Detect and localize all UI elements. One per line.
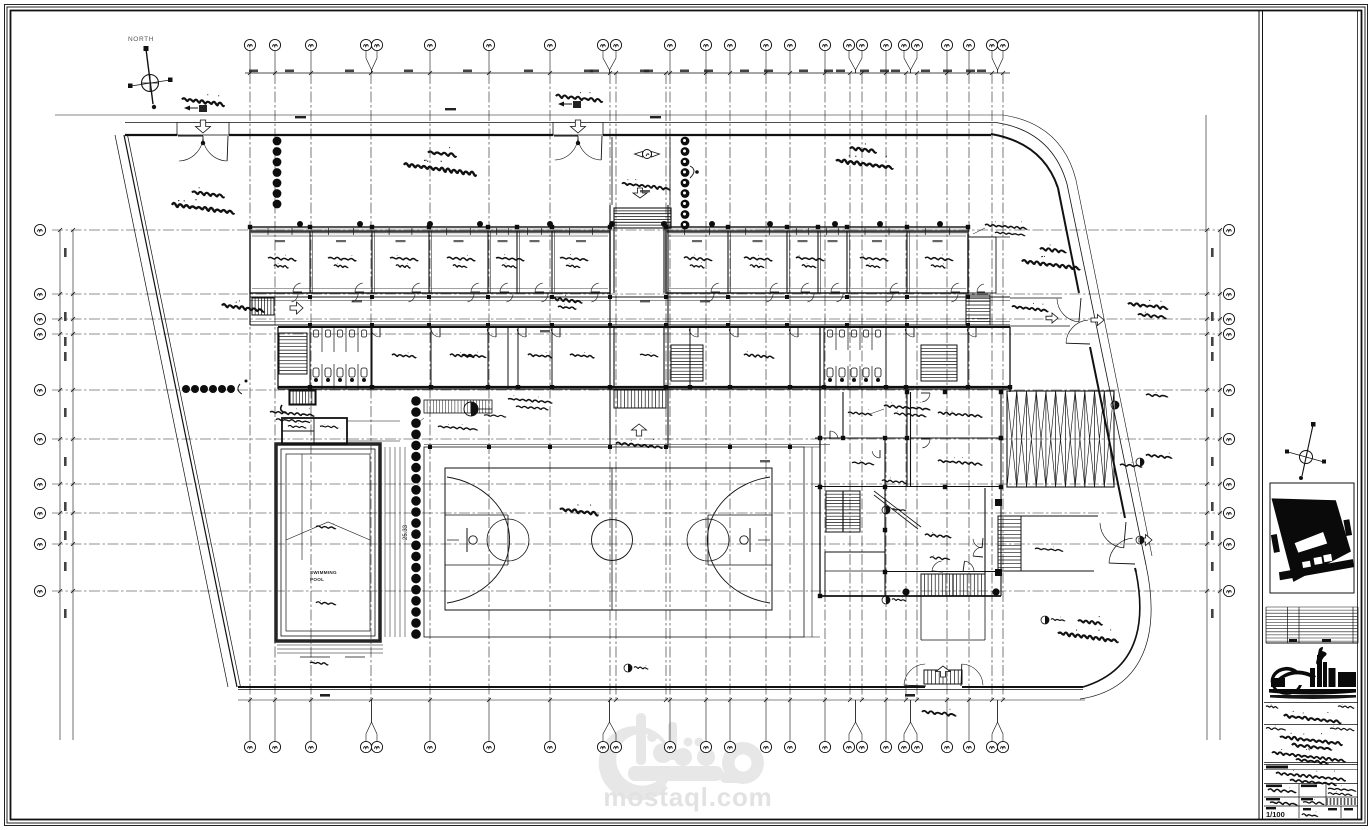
site boundary bottom fence bbox=[238, 686, 1083, 688]
row B outline bbox=[278, 327, 1010, 389]
court right key bbox=[708, 515, 772, 565]
kindergarten room labels bbox=[938, 412, 982, 417]
title block project rows bbox=[1266, 728, 1286, 730]
svg-text:NORTH: NORTH bbox=[128, 36, 154, 43]
row A left wing room partitions bbox=[310, 231, 552, 293]
courtyard level markers bbox=[882, 506, 890, 514]
row B columns bbox=[308, 385, 312, 389]
horizontal grid lines bbox=[52, 230, 1222, 591]
circled marker above entrance bbox=[643, 150, 652, 159]
dimension chain top bbox=[55, 114, 1003, 116]
right fence gate kindergarten doors bbox=[1057, 299, 1079, 322]
canopy hatched roof bbox=[1007, 391, 1114, 487]
tree column near gate2 bbox=[681, 137, 690, 146]
corridor door arcs from row A bbox=[291, 294, 298, 302]
kindergarten block columns bbox=[818, 436, 822, 440]
misc right side labels bbox=[1146, 394, 1168, 397]
dimension chain left bbox=[59, 230, 61, 740]
building row A outline right wing bbox=[666, 227, 968, 293]
NE stair outside building bbox=[966, 295, 990, 325]
kindergarten block outline bbox=[820, 327, 1010, 596]
tree row horizontal west bbox=[182, 385, 190, 393]
row B doors bbox=[371, 329, 380, 337]
kindergarten interior walls bbox=[815, 438, 1001, 596]
right hoop bbox=[749, 528, 751, 552]
title block left border bbox=[1258, 11, 1260, 820]
misc note top right of row A bbox=[985, 224, 1027, 229]
central spine walls bbox=[610, 205, 668, 447]
tree row west courtyard bbox=[411, 396, 421, 406]
dimension chain right bbox=[1206, 230, 1208, 740]
big corner columns bbox=[995, 499, 1002, 506]
row A left wing doors bbox=[293, 283, 301, 292]
pool basin bbox=[286, 454, 370, 631]
walkway to south gate bbox=[921, 596, 985, 640]
title block revision table bbox=[1266, 607, 1358, 641]
kindergarten east stair (corridor level) bbox=[921, 345, 957, 381]
misc note below row B right bbox=[884, 405, 930, 410]
court enclosure columns bbox=[428, 445, 432, 449]
building row A outline left wing bbox=[250, 227, 610, 293]
court label bbox=[560, 508, 598, 515]
pool lane + slope lines bbox=[286, 454, 370, 560]
watermark mostaql arabic logo bbox=[599, 713, 764, 800]
tree column near gate1 bbox=[273, 137, 282, 146]
central spine top entrance stair bbox=[614, 208, 671, 228]
title block signature table bbox=[1264, 784, 1358, 819]
site boundary top fence bbox=[125, 134, 991, 136]
row B room labels bbox=[392, 354, 416, 358]
svg-text:POOL: POOL bbox=[310, 577, 324, 582]
vertical grid lines bbox=[250, 73, 1003, 700]
basketball court outline bbox=[445, 468, 772, 610]
corridor walls bbox=[250, 297, 1010, 325]
pool south steps bbox=[277, 645, 383, 653]
label: madkhal thanawi west side + arrow bbox=[222, 304, 264, 312]
gate 1 label madkhal thanawi bbox=[182, 98, 224, 106]
site boundary bottom-right corner curve bbox=[1083, 572, 1140, 687]
label: kindergarten courtyard top right bbox=[850, 147, 876, 152]
corridor west stair bbox=[252, 298, 274, 315]
row B west stair bbox=[279, 333, 307, 374]
NE corner room extension bbox=[968, 237, 996, 293]
svg-text:mostaql.com: mostaql.com bbox=[603, 782, 772, 812]
walkway hatch left of court bbox=[424, 400, 492, 413]
label: shaded courtyard bbox=[552, 297, 582, 302]
grid bubbles bottom row bbox=[244, 741, 255, 752]
kindergarten hall double door bbox=[973, 539, 982, 548]
site boundary right edge bbox=[1058, 188, 1136, 572]
court center line and circle bbox=[611, 468, 613, 610]
kindergarten east entrance stair bbox=[998, 516, 1021, 571]
right fence gate label + arrow bbox=[1091, 315, 1104, 326]
kindergarten SE annex walls bbox=[1021, 516, 1098, 571]
spine bottom arrow + label bbox=[632, 424, 647, 436]
central spine top entrance arrow/label bbox=[633, 188, 647, 198]
bottom fence gate bbox=[904, 664, 925, 685]
kindergarten WC east (row B section) bbox=[824, 327, 886, 389]
gate 2 label entrance bbox=[556, 95, 602, 102]
label: primary stage courtyard top bbox=[428, 151, 456, 156]
kindergarten south entrance stair bbox=[921, 574, 985, 596]
kindergarten row B partitions east bbox=[690, 327, 968, 389]
row B WC block west bbox=[310, 327, 371, 389]
row A right wing room partitions bbox=[728, 231, 907, 293]
row A wall columns bbox=[248, 225, 252, 229]
svg-text:25.33: 25.33 bbox=[403, 524, 409, 540]
kindergarten mid entrance label/arrow bbox=[1012, 306, 1048, 311]
label: primary courtyard bottom right bbox=[1078, 620, 1102, 625]
kindergarten stair south-west dual flight bbox=[826, 491, 860, 532]
pool deck lines east bbox=[385, 447, 405, 637]
pool north annex rooms bbox=[282, 418, 347, 444]
hall ramp diagonal bbox=[874, 491, 921, 529]
title block north arrow bbox=[1300, 451, 1313, 464]
kindergarten room doors bbox=[922, 393, 930, 402]
corridor columns bbox=[308, 295, 312, 299]
gate 1 arrow bbox=[196, 120, 211, 133]
canopy to fence connector lines bbox=[968, 237, 1070, 326]
court enclosure bbox=[424, 447, 804, 637]
grid bubbles left column bbox=[34, 224, 45, 235]
grid bubbles top row bbox=[244, 39, 255, 50]
label: kindergarten courtyard right bbox=[1040, 248, 1066, 252]
gate 2 main entrance doors bbox=[553, 123, 603, 136]
level marker courtyard bbox=[464, 402, 478, 416]
dimension chain bottom bbox=[238, 699, 1085, 701]
right fence lower gate doors bbox=[1100, 523, 1124, 548]
row A right wing doors bbox=[711, 283, 719, 292]
bottom-left annex room bbox=[825, 552, 885, 596]
row A room label texts bbox=[268, 257, 296, 260]
key plan site blob bbox=[1265, 486, 1359, 585]
svg-text:1/100: 1/100 bbox=[1266, 810, 1285, 819]
central spine bottom stair bbox=[614, 390, 666, 408]
ramp below west WC bbox=[289, 390, 316, 405]
grid bubbles right column bbox=[1223, 224, 1234, 235]
row B room partitions bbox=[372, 327, 552, 389]
title block key plan box bbox=[1270, 483, 1354, 593]
row A partition double lines bbox=[313, 231, 910, 293]
gate 1 secondary entrance doors bbox=[177, 123, 229, 136]
title block logo bbox=[1269, 647, 1356, 699]
site boundary left sloped edge bbox=[115, 135, 228, 687]
left hoop bbox=[466, 528, 468, 552]
label: secondary stage courtyard bbox=[192, 191, 224, 197]
row A window ticks bbox=[268, 228, 950, 235]
small dim texts scattered bbox=[352, 300, 362, 302]
court left key bbox=[445, 515, 508, 565]
svg-text:SWIMMING: SWIMMING bbox=[310, 570, 337, 575]
passage line west of kindergarten bbox=[804, 447, 820, 637]
title block owner row bbox=[1264, 702, 1358, 704]
misc note left of spine bottom bbox=[508, 399, 552, 403]
site boundary top-right corner curve bbox=[991, 134, 1058, 188]
swimming pool outer wall bbox=[276, 444, 380, 641]
